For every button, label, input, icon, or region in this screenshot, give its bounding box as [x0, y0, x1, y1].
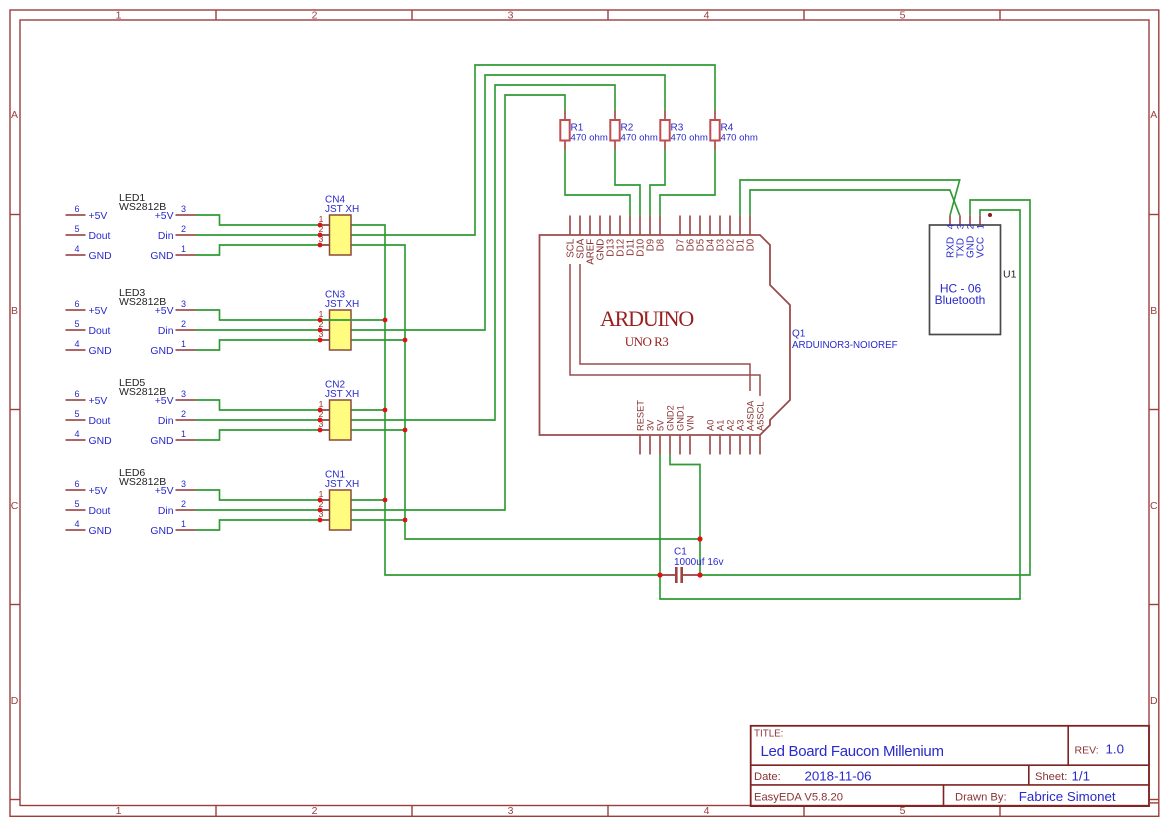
svg-text:+5V: +5V: [89, 211, 108, 222]
svg-text:A0: A0: [705, 420, 715, 431]
HC-06 Bluetooth module U1: [930, 215, 1017, 334]
Q1 pin AREF: [589, 216, 591, 236]
wire LED1 GND to CN4 pin3: [196, 245, 321, 255]
wire D0 to HC-06 TXD: [750, 190, 960, 216]
Q1 pin A2: [729, 435, 731, 455]
svg-text:A4SDA: A4SDA: [745, 400, 755, 431]
svg-text:Dout: Dout: [89, 416, 111, 427]
Q1 pin D8: [659, 216, 661, 236]
wire D1 to HC-06 RXD: [740, 180, 960, 216]
CN4 pin 1: [320, 224, 330, 226]
Q1 pin D5: [699, 216, 701, 236]
svg-text:1: 1: [319, 399, 324, 409]
svg-text:JST XH: JST XH: [325, 204, 359, 215]
wire CN1 pin3 to GND bus: [351, 519, 405, 521]
wire LED6 +5V to CN1 pin1: [196, 490, 321, 500]
svg-text:GND: GND: [89, 251, 112, 262]
LED1 right pin 1 GND: [176, 254, 196, 256]
LED6 right pin 2 Din: [176, 509, 196, 511]
Q1 pin D2: [729, 216, 731, 236]
svg-text:GND: GND: [150, 436, 173, 447]
svg-text:Dout: Dout: [89, 506, 111, 517]
svg-text:GND: GND: [150, 346, 173, 357]
Q1 pin GND: [599, 216, 601, 236]
LED3 right pin 2 Din: [176, 329, 196, 331]
CN2 pin 2: [320, 419, 330, 421]
svg-text:1.0: 1.0: [1106, 742, 1125, 757]
svg-text:C: C: [1150, 500, 1158, 512]
svg-text:+5V: +5V: [155, 396, 174, 407]
wire LED1 +5V to CN4 pin1: [196, 215, 321, 225]
Q1 pin VIN: [689, 435, 691, 455]
wire LED3 Din to CN3 pin2: [196, 329, 321, 331]
wire CN2 pin3 to GND bus: [351, 429, 405, 431]
svg-text:2: 2: [181, 224, 186, 234]
svg-text:Din: Din: [158, 231, 174, 242]
wire LED6 GND to CN1 pin3: [196, 520, 321, 530]
svg-text:5: 5: [74, 319, 79, 329]
wire R4 bottom to D8: [660, 150, 715, 216]
svg-text:2: 2: [181, 499, 186, 509]
svg-text:4: 4: [74, 339, 79, 349]
svg-text:2: 2: [181, 319, 186, 329]
svg-text:+5V: +5V: [89, 306, 108, 317]
CN3 pin 1: [320, 319, 330, 321]
svg-text:A2: A2: [725, 420, 735, 431]
svg-text:A3: A3: [735, 420, 745, 431]
Q1 pin SCL: [569, 216, 571, 236]
Q1 pin A0: [709, 435, 711, 455]
svg-text:D8: D8: [655, 239, 666, 251]
svg-text:Din: Din: [158, 416, 174, 427]
Q1 pin 3V: [649, 435, 651, 455]
svg-text:GND2: GND2: [665, 405, 675, 431]
svg-text:ARDUINO: ARDUINO: [600, 306, 693, 331]
connector CN1 JST XH: [319, 470, 360, 531]
svg-text:JST XH: JST XH: [325, 479, 359, 490]
connector CN2 JST XH: [319, 380, 360, 441]
svg-text:470 ohm: 470 ohm: [671, 133, 708, 144]
connector CN3 JST XH: [319, 290, 360, 351]
Q1 pin D0: [749, 216, 751, 236]
LED6 left pin 5 Dout: [66, 509, 86, 511]
LED3 right pin 3 +5V: [176, 309, 196, 311]
svg-text:+5V: +5V: [155, 211, 174, 222]
svg-text:D: D: [1150, 695, 1158, 707]
wire LED3 GND to CN3 pin3: [196, 340, 321, 350]
svg-text:2018-11-06: 2018-11-06: [805, 769, 872, 784]
CN2 pin 1: [320, 409, 330, 411]
svg-text:D: D: [11, 695, 19, 707]
wire LED3 +5V to CN3 pin1: [196, 310, 321, 320]
svg-text:Dout: Dout: [89, 231, 111, 242]
svg-text:Drawn By:: Drawn By:: [955, 792, 1007, 804]
wire R2 bottom to D10: [615, 150, 640, 216]
LED connector symbol LED3 WS2812B: [66, 287, 196, 357]
LED1 left pin 4 GND: [66, 254, 86, 256]
CN4 pin 2: [320, 234, 330, 236]
svg-text:4: 4: [704, 805, 710, 817]
svg-text:Led Board Faucon Millenium: Led Board Faucon Millenium: [761, 743, 944, 760]
LED1 right pin 2 Din: [176, 234, 196, 236]
Q1 pin D9: [649, 216, 651, 236]
svg-text:RESET: RESET: [635, 400, 645, 431]
svg-text:2: 2: [312, 9, 318, 21]
svg-text:5: 5: [900, 9, 906, 21]
svg-text:1: 1: [181, 429, 186, 439]
Q1 pin D4: [709, 216, 711, 236]
LED3 left pin 6 +5V: [66, 309, 86, 311]
wire CN1 pin2 to R1 top: [351, 95, 565, 510]
wire GND2 pin to GND node: [670, 455, 700, 576]
wire R1 bottom to D11: [565, 150, 630, 216]
LED3 left pin 4 GND: [66, 349, 86, 351]
internal SDA to A4SDA link: [580, 264, 750, 391]
Q1 pin D7: [679, 216, 681, 236]
svg-text:1: 1: [319, 489, 324, 499]
svg-text:C: C: [11, 500, 19, 512]
svg-text:4: 4: [74, 519, 79, 529]
LED3 left pin 5 Dout: [66, 329, 86, 331]
svg-text:1: 1: [181, 519, 186, 529]
Q1 pin D10: [639, 216, 641, 236]
svg-text:A5SCL: A5SCL: [755, 402, 765, 431]
Q1 pin GND1: [679, 435, 681, 455]
svg-text:REV:: REV:: [1075, 745, 1099, 757]
svg-text:3: 3: [508, 805, 514, 817]
svg-text:+5V: +5V: [89, 396, 108, 407]
wire LED1 Din to CN4 pin2: [196, 234, 321, 236]
wire GND bus: CN4 pin3 down to GND node: [351, 245, 700, 539]
svg-text:4: 4: [704, 9, 710, 21]
connector CN4 JST XH: [319, 195, 360, 256]
svg-text:3: 3: [508, 9, 514, 21]
svg-text:470 ohm: 470 ohm: [721, 133, 758, 144]
Q1 pin A1: [719, 435, 721, 455]
svg-text:1/1: 1/1: [1072, 769, 1091, 784]
Q1 pin A3: [739, 435, 741, 455]
Q1 pin D3: [719, 216, 721, 236]
CN2 pin 3: [320, 429, 330, 431]
LED5 right pin 3 +5V: [176, 399, 196, 401]
Q1 pin RESET: [639, 435, 641, 455]
svg-text:JST XH: JST XH: [325, 389, 359, 400]
wire CN3 pin1 to +5V bus (drawn over connector): [320, 319, 385, 321]
resistor R1 470 ohm: [560, 111, 608, 151]
wire LED5 Din to CN2 pin2: [196, 419, 321, 421]
LED6 right pin 3 +5V: [176, 489, 196, 491]
LED1 left pin 6 +5V: [66, 214, 86, 216]
svg-text:5: 5: [74, 409, 79, 419]
svg-text:1: 1: [319, 309, 324, 319]
U1 pin 1 VCC: [979, 215, 981, 225]
svg-text:1: 1: [181, 244, 186, 254]
LED connector symbol LED1 WS2812B: [66, 192, 196, 262]
Q1 pin 5V: [659, 435, 661, 455]
Arduino UNO R3 module Q1: [540, 216, 898, 455]
svg-text:+5V: +5V: [155, 306, 174, 317]
svg-text:+5V: +5V: [89, 486, 108, 497]
U1 pin 4 RXD: [949, 215, 951, 225]
wire CN2 pin1 to +5V bus: [351, 409, 385, 411]
svg-text:Dout: Dout: [89, 326, 111, 337]
wire CN3 pin3 to GND bus: [351, 339, 405, 341]
svg-text:6: 6: [74, 389, 79, 399]
svg-text:2: 2: [312, 805, 318, 817]
wire CN2 pin2 to R2 top: [351, 85, 615, 420]
U1 pin 2 GND: [969, 215, 971, 225]
svg-text:1000uf 16v: 1000uf 16v: [674, 557, 724, 568]
svg-text:Date:: Date:: [754, 771, 781, 783]
svg-text:+5V: +5V: [155, 486, 174, 497]
svg-text:1: 1: [319, 214, 324, 224]
wire LED5 +5V to CN2 pin1: [196, 400, 321, 410]
no-connect dot near HC-06 VCC: [988, 213, 992, 217]
svg-text:GND: GND: [89, 436, 112, 447]
LED5 right pin 2 Din: [176, 419, 196, 421]
wire CN3 pin2 to R3 top: [351, 75, 665, 330]
CN3 pin 3: [320, 339, 330, 341]
Q1 pin D1: [739, 216, 741, 236]
Q1 pin D12: [619, 216, 621, 236]
svg-text:B: B: [11, 305, 18, 317]
svg-text:3: 3: [181, 204, 186, 214]
LED5 left pin 6 +5V: [66, 399, 86, 401]
LED5 left pin 5 Dout: [66, 419, 86, 421]
svg-text:1: 1: [116, 9, 122, 21]
wire CN1 pin1 to +5V bus: [351, 499, 385, 501]
Q1 pin GND2: [669, 435, 671, 455]
svg-text:VIN: VIN: [685, 416, 695, 432]
svg-text:D0: D0: [745, 238, 756, 251]
svg-text:1: 1: [181, 339, 186, 349]
svg-text:Bluetooth: Bluetooth: [935, 293, 986, 307]
svg-text:1: 1: [116, 805, 122, 817]
svg-text:5: 5: [74, 224, 79, 234]
LED1 right pin 3 +5V: [176, 214, 196, 216]
wire HC-06 GND to GND net: [700, 200, 1030, 575]
CN1 pin 3: [320, 519, 330, 521]
svg-text:3: 3: [181, 299, 186, 309]
wire LED6 Din to CN1 pin2: [196, 509, 321, 511]
LED3 right pin 1 GND: [176, 349, 196, 351]
svg-text:3V: 3V: [645, 419, 655, 431]
svg-text:3: 3: [181, 389, 186, 399]
internal SCL to A5SCL link: [570, 264, 760, 396]
svg-text:A1: A1: [715, 420, 725, 431]
svg-text:1: 1: [975, 224, 986, 229]
svg-text:ARDUINOR3-NOIOREF: ARDUINOR3-NOIOREF: [792, 340, 898, 351]
LED5 left pin 4 GND: [66, 439, 86, 441]
CN1 pin 1: [320, 499, 330, 501]
svg-text:2: 2: [181, 409, 186, 419]
resistor R3 470 ohm: [660, 111, 708, 151]
svg-text:Sheet:: Sheet:: [1035, 771, 1067, 783]
svg-text:Din: Din: [158, 506, 174, 517]
LED connector symbol LED5 WS2812B: [66, 377, 196, 447]
svg-text:A: A: [11, 109, 18, 121]
svg-text:Din: Din: [158, 326, 174, 337]
Q1 pin A5SCL: [759, 435, 761, 455]
LED connector symbol LED6 WS2812B: [66, 467, 196, 537]
svg-text:A: A: [1150, 109, 1157, 121]
Q1 pin A4SDA: [749, 435, 751, 455]
wire CN4 pin2 to R4 top: [351, 65, 715, 235]
svg-text:4: 4: [74, 429, 79, 439]
title block: [751, 726, 1159, 806]
svg-text:GND: GND: [150, 251, 173, 262]
wire R3 bottom to D9: [650, 150, 665, 216]
svg-text:GND: GND: [89, 526, 112, 537]
CN3 pin 2: [320, 329, 330, 331]
Q1 pin SDA: [579, 216, 581, 236]
Q1 pin D11: [629, 216, 631, 236]
svg-text:3: 3: [181, 479, 186, 489]
junction dots: [318, 223, 703, 578]
svg-text:GND1: GND1: [675, 405, 685, 431]
capacitor C1 1000uf 16v: [661, 547, 724, 584]
svg-text:C1: C1: [674, 547, 687, 558]
svg-text:GND: GND: [89, 346, 112, 357]
svg-text:B: B: [1150, 305, 1157, 317]
svg-text:5V: 5V: [655, 419, 665, 431]
svg-text:6: 6: [74, 479, 79, 489]
LED6 left pin 4 GND: [66, 529, 86, 531]
resistor R2 470 ohm: [610, 111, 658, 151]
svg-text:6: 6: [74, 204, 79, 214]
wire +5V bus: CN4 pin1 down to C1 left node: [351, 225, 660, 575]
LED6 left pin 6 +5V: [66, 489, 86, 491]
svg-text:6: 6: [74, 299, 79, 309]
svg-text:UNO R3: UNO R3: [625, 334, 669, 349]
wire 5V pin to HC-06 VCC: [660, 210, 1020, 599]
Q1 pin D13: [609, 216, 611, 236]
svg-text:VCC: VCC: [976, 237, 987, 258]
LED6 right pin 1 GND: [176, 529, 196, 531]
svg-text:EasyEDA V5.8.20: EasyEDA V5.8.20: [754, 792, 843, 804]
CN1 pin 2: [320, 509, 330, 511]
svg-text:U1: U1: [1003, 269, 1017, 281]
wire LED5 GND to CN2 pin3: [196, 430, 321, 440]
svg-text:TITLE:: TITLE:: [754, 729, 783, 740]
U1 pin 3 TXD: [959, 215, 961, 225]
svg-text:Q1: Q1: [792, 329, 806, 340]
Q1 pin D6: [689, 216, 691, 236]
svg-text:470 ohm: 470 ohm: [621, 133, 658, 144]
svg-text:JST XH: JST XH: [325, 299, 359, 310]
svg-text:470 ohm: 470 ohm: [571, 133, 608, 144]
LED5 right pin 1 GND: [176, 439, 196, 441]
svg-text:4: 4: [74, 244, 79, 254]
svg-text:Fabrice Simonet: Fabrice Simonet: [1019, 789, 1116, 804]
resistor R4 470 ohm: [710, 111, 758, 151]
svg-text:GND: GND: [150, 526, 173, 537]
CN4 pin 3: [320, 244, 330, 246]
svg-text:5: 5: [74, 499, 79, 509]
LED1 left pin 5 Dout: [66, 234, 86, 236]
